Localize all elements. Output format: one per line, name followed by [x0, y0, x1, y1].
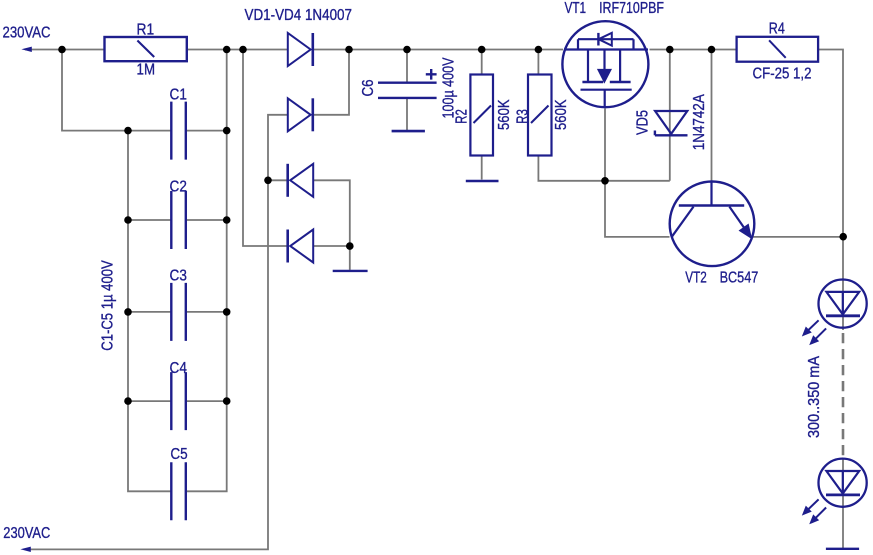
svg-text:VT2: VT2 [685, 269, 707, 286]
svg-text:C2: C2 [170, 179, 187, 196]
svg-text:BC547: BC547 [720, 269, 759, 286]
svg-text:1N4742A: 1N4742A [691, 94, 708, 150]
svg-text:R3: R3 [515, 109, 532, 124]
svg-text:1M: 1M [137, 62, 156, 79]
svg-text:R2: R2 [454, 109, 471, 124]
svg-text:C1: C1 [170, 86, 187, 103]
svg-text:IRF710PBF: IRF710PBF [599, 0, 664, 17]
svg-text:560K: 560K [496, 99, 513, 130]
svg-text:C3: C3 [170, 268, 187, 285]
svg-text:C1-C5 1µ 400V: C1-C5 1µ 400V [100, 260, 117, 351]
svg-text:VT1: VT1 [565, 0, 587, 17]
svg-text:VD5: VD5 [634, 110, 651, 135]
svg-text:300..350 mA: 300..350 mA [806, 356, 823, 438]
svg-text:CF-25 1,2: CF-25 1,2 [753, 65, 812, 82]
svg-text:230VAC: 230VAC [3, 25, 51, 42]
svg-text:230VAC: 230VAC [3, 525, 50, 542]
svg-text:C5: C5 [170, 446, 187, 463]
svg-text:R1: R1 [137, 21, 155, 38]
svg-text:R4: R4 [769, 20, 785, 37]
svg-text:C6: C6 [360, 79, 377, 96]
svg-text:560K: 560K [553, 99, 570, 130]
svg-text:VD1-VD4 1N4007: VD1-VD4 1N4007 [245, 7, 353, 24]
svg-text:C4: C4 [170, 360, 187, 377]
